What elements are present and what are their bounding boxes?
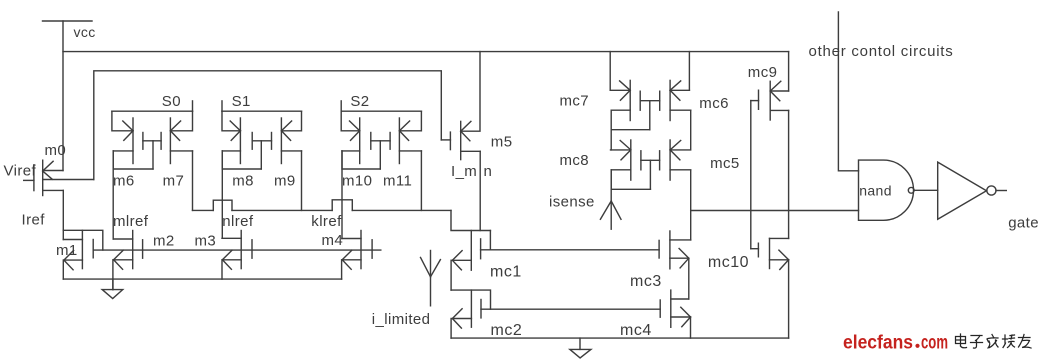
label isense xyxy=(549,193,595,210)
wire nand output xyxy=(914,189,938,191)
ground symbol left xyxy=(102,279,123,298)
svg-text:gate: gate xyxy=(1008,214,1039,231)
transistor m9 source lead xyxy=(281,150,301,152)
wire mc9 drain from rail xyxy=(788,52,790,91)
label klref xyxy=(311,213,342,230)
wire other control circuits xyxy=(838,12,858,171)
transistor m11 drain arrow xyxy=(399,121,409,140)
transistor mc3 source arrow xyxy=(679,249,689,268)
label mc4 xyxy=(620,322,652,339)
transistor mc9 drain arrow xyxy=(770,81,781,101)
transistor mc9 source lead xyxy=(770,109,788,111)
svg-text:m7: m7 xyxy=(163,173,185,190)
wire mc9 source down xyxy=(788,110,790,238)
wire mc7-mc6 gate link xyxy=(640,100,660,102)
transistor mc8 source lead xyxy=(611,169,631,171)
transistor mc3 gate plate xyxy=(658,240,660,258)
svg-text:m0: m0 xyxy=(45,142,67,159)
transistor mc2 source lead xyxy=(452,318,471,320)
transistor mc4 source arrow xyxy=(681,307,691,326)
gate U2 output bubble xyxy=(987,186,996,195)
wire S2 source tie xyxy=(342,151,380,169)
wire Iref node m0 to m1 xyxy=(62,190,64,239)
transistor mc1 source lead xyxy=(452,259,471,261)
logo elecfans.com xyxy=(843,333,948,354)
label other contol circuits xyxy=(809,43,954,60)
transistor mc4 channel xyxy=(670,290,672,327)
transistor m5 source lead xyxy=(461,150,481,152)
wire S0 right drain xyxy=(170,111,192,131)
wire mc9 gate vertical xyxy=(750,101,752,249)
transistor mc2 gate plate xyxy=(480,300,482,318)
transistor mc6 drain lead xyxy=(670,89,689,91)
label S0 xyxy=(162,93,181,110)
transistor mc6 channel xyxy=(669,80,671,120)
wire m3 source down xyxy=(221,260,223,279)
logo chinese char fa xyxy=(987,335,998,349)
svg-text:other contol circuits: other contol circuits xyxy=(809,43,954,60)
transistor m10 drain arrow xyxy=(350,121,360,140)
label mc5 xyxy=(710,155,740,172)
transistor mc8 drain lead xyxy=(611,149,631,151)
label I_min part1 xyxy=(451,163,477,180)
wire m9 source down xyxy=(301,151,303,211)
transistor mc10 drain lead xyxy=(770,237,789,239)
transistor m0 source lead xyxy=(43,189,64,191)
transistor m3 channel xyxy=(240,231,242,269)
transistor mc6 gate plate xyxy=(659,91,661,110)
label mc3 xyxy=(630,273,662,290)
transistor m9 drain arrow xyxy=(281,121,291,140)
svg-text:mc7: mc7 xyxy=(560,93,590,110)
svg-text:com: com xyxy=(921,333,948,354)
label Iref xyxy=(22,211,46,228)
svg-text:m8: m8 xyxy=(232,173,254,190)
svg-text:m1: m1 xyxy=(56,242,78,259)
label m10 xyxy=(342,173,372,190)
svg-text:mc1: mc1 xyxy=(490,264,522,281)
label m11 xyxy=(383,173,412,190)
label nand xyxy=(859,182,892,198)
transistor m4 source arrow xyxy=(342,250,352,269)
wire m1 source down xyxy=(62,260,64,279)
transistor mc10 gate plate xyxy=(757,243,759,257)
transistor m4 channel xyxy=(360,231,362,269)
transistor m4 gate plate xyxy=(371,240,373,258)
wire gate rail mc1-mc3 xyxy=(481,249,659,251)
transistor m7 channel xyxy=(169,118,171,164)
svg-text:m5: m5 xyxy=(491,134,513,151)
logo chinese char dian xyxy=(956,334,967,348)
transistor mc6 source lead xyxy=(670,109,691,111)
label Viref xyxy=(4,163,37,180)
wire sense node to nand xyxy=(691,210,859,212)
transistor mc8 gate plate xyxy=(640,151,642,170)
transistor m8 channel xyxy=(239,118,241,164)
wire mc8-mc5 source tie xyxy=(611,188,650,190)
transistor m0 channel xyxy=(42,160,44,195)
label mc1 xyxy=(490,264,522,281)
label S1 xyxy=(232,93,251,110)
transistor m2 source arrow xyxy=(114,250,124,269)
wire S2 gate link xyxy=(371,140,390,142)
transistor m6 channel xyxy=(132,118,134,164)
transistor mc2 channel xyxy=(470,290,472,327)
transistor m5 gate plate xyxy=(449,132,451,150)
transistor m6 drain arrow xyxy=(123,121,133,140)
transistor m0 gate lead xyxy=(24,179,34,181)
svg-text:mc2: mc2 xyxy=(491,322,523,339)
transistor m8 source lead xyxy=(222,150,240,152)
wire top rail VDD xyxy=(63,51,789,53)
current arrow i_limited xyxy=(421,251,441,306)
transistor m5 drain lead xyxy=(461,52,480,132)
wire mc4 source down xyxy=(690,317,692,338)
wire I_min rail segment 2 xyxy=(232,209,332,211)
wire S2 control stub xyxy=(340,101,342,111)
transistor mc9 gate plate xyxy=(758,90,760,109)
transistor mc7 gate plate xyxy=(639,91,641,110)
svg-text:n: n xyxy=(484,163,493,180)
wire I_min rail segment 1 xyxy=(193,209,214,211)
transistor m7 drain arrow xyxy=(170,121,180,140)
svg-text:nlref: nlref xyxy=(222,213,254,230)
wire mc8-mc5 gate link xyxy=(641,159,660,161)
svg-text:elecfans: elecfans xyxy=(843,333,913,354)
transistor m2 channel xyxy=(132,231,134,269)
transistor m0 gate plate xyxy=(33,165,35,191)
label m5 xyxy=(491,134,513,151)
svg-text:mlref: mlref xyxy=(113,213,149,230)
wire S0 gate drop xyxy=(152,141,154,169)
transistor mc5 channel xyxy=(669,140,671,180)
gate U1 output bubble xyxy=(908,187,914,193)
wire S2 top rail xyxy=(341,110,421,112)
transistor m3 source lead xyxy=(222,259,241,261)
wire vcc vertical to m0 drain xyxy=(62,21,64,171)
transistor m10 channel xyxy=(359,118,361,164)
transistor mc8 drain arrow xyxy=(620,141,631,160)
wire S1 right drain xyxy=(281,111,301,131)
wire mc7-mc6 source tie xyxy=(611,129,650,131)
label m8 xyxy=(232,173,254,190)
wire ground rail bottom xyxy=(451,337,788,339)
label vcc xyxy=(74,24,96,40)
wire S0 source tie xyxy=(113,151,153,169)
svg-text:Viref: Viref xyxy=(4,163,37,180)
svg-text:I_m: I_m xyxy=(451,163,477,180)
transistor mc5 drain lead xyxy=(670,149,689,151)
wire S0 top rail xyxy=(112,110,193,112)
wire hop over klref xyxy=(332,200,352,211)
svg-text:m2: m2 xyxy=(153,232,175,249)
transistor m10 source lead xyxy=(342,150,360,152)
transistor mc5 source lead xyxy=(670,169,691,171)
svg-text:S2: S2 xyxy=(350,93,369,110)
wire S2 gate drop xyxy=(379,141,381,169)
transistor m1 source lead xyxy=(64,259,83,261)
transistor m9 channel xyxy=(280,118,282,164)
transistor mc9 channel xyxy=(769,81,771,120)
transistor m6 gate plate xyxy=(142,133,144,150)
transistor mc4 gate plate xyxy=(659,300,661,317)
wire I_min rail segment 3 xyxy=(352,209,451,211)
wire m11 source down xyxy=(420,151,422,211)
label m1 xyxy=(56,242,78,259)
wire S0 left drain xyxy=(112,111,133,131)
transistor mc7 drain arrow xyxy=(620,81,631,100)
label i_limited xyxy=(372,311,431,328)
svg-text:mc3: mc3 xyxy=(630,273,662,290)
wire inverter output xyxy=(996,190,1006,192)
transistor mc10 source arrow xyxy=(779,250,789,269)
label m3 xyxy=(195,232,217,249)
label mc10 xyxy=(708,254,749,271)
transistor mc7 drain lead xyxy=(610,89,630,91)
wire mc7-mc6 gate drop xyxy=(649,101,651,130)
label m0 xyxy=(45,142,67,159)
svg-text:vcc: vcc xyxy=(74,24,96,40)
transistor m10 gate plate xyxy=(370,133,372,150)
transistor m6 source lead xyxy=(113,150,133,152)
svg-text:klref: klref xyxy=(311,213,342,230)
transistor mc7 channel xyxy=(629,80,631,120)
transistor mc7 source lead xyxy=(611,109,630,111)
gate U2 inverter triangle xyxy=(938,162,987,219)
wire mc5 source down to mc3 xyxy=(690,170,692,240)
transistor mc1 gate plate xyxy=(480,239,482,259)
label mc9 xyxy=(748,64,778,81)
label I_min part2 xyxy=(484,163,493,180)
transistor m0 drain lead to vcc xyxy=(43,170,63,172)
transistor mc2 drain lead xyxy=(451,290,490,309)
svg-text:nand: nand xyxy=(859,182,892,198)
transistor m8 drain arrow xyxy=(230,121,240,140)
transistor mc1 diode tie xyxy=(489,231,491,250)
svg-text:mc5: mc5 xyxy=(710,155,740,172)
transistor m11 channel xyxy=(398,118,400,164)
transistor m3 drain lead xyxy=(222,237,241,239)
wire S1 gate link xyxy=(252,140,271,142)
transistor m3 gate plate xyxy=(251,240,253,258)
transistor m9 gate plate xyxy=(271,133,273,150)
wire m7 source down xyxy=(192,151,194,211)
transistor m11 gate plate xyxy=(389,133,391,150)
transistor m7 source lead xyxy=(170,150,192,152)
label S2 xyxy=(350,93,369,110)
wire mlref vertical xyxy=(112,151,114,239)
label m9 xyxy=(274,173,296,190)
transistor m11 source lead xyxy=(399,150,421,152)
wire gate rail m1-m4 xyxy=(93,249,381,251)
transistor m4 source lead xyxy=(342,259,361,261)
transistor mc10 gate lead xyxy=(751,248,759,250)
wire klref vertical xyxy=(341,151,343,239)
wire mc3 source to mc4 drain xyxy=(688,258,690,299)
wire m4 source down xyxy=(341,260,343,279)
svg-text:mc10: mc10 xyxy=(708,254,749,271)
transistor m3 source arrow xyxy=(222,250,232,269)
svg-text:S0: S0 xyxy=(162,93,181,110)
transistor m2 gate plate xyxy=(142,240,144,258)
transistor m5 gate lead xyxy=(441,139,450,141)
logo chinese char shao xyxy=(1003,335,1015,348)
svg-text:mc4: mc4 xyxy=(620,322,652,339)
svg-text:mc9: mc9 xyxy=(748,64,778,81)
wire S1 control stub xyxy=(221,101,223,111)
transistor mc3 channel xyxy=(669,231,671,269)
transistor m1 source arrow xyxy=(64,250,74,269)
gate U1 nand body xyxy=(859,160,914,220)
wire S0 gate link xyxy=(143,140,161,142)
wire mc7 source down xyxy=(610,110,612,130)
wire second rail xyxy=(94,71,442,180)
wire mc2 source down xyxy=(450,319,452,339)
label m6 xyxy=(113,173,135,190)
wire S2 right drain xyxy=(399,111,421,131)
transistor mc6 drain arrow xyxy=(670,81,681,100)
transistor mc9 gate lead xyxy=(751,100,759,102)
svg-text:Iref: Iref xyxy=(22,211,46,228)
transistor m2 source lead xyxy=(114,259,133,261)
transistor mc1 source arrow xyxy=(452,251,462,270)
transistor mc3 source lead xyxy=(670,257,689,259)
wire mc7 drain from rail xyxy=(609,52,611,91)
transistor mc5 gate plate xyxy=(659,151,661,170)
transistor m1 drain lead xyxy=(63,239,82,241)
label gate xyxy=(1008,214,1039,231)
label mlref xyxy=(113,213,149,230)
label mc2 xyxy=(491,322,523,339)
transistor m1 gate plate xyxy=(92,240,94,258)
svg-text:mc6: mc6 xyxy=(699,95,729,112)
transistor mc1 channel xyxy=(470,231,472,271)
transistor m1 channel xyxy=(81,230,83,268)
wire S2 left drain xyxy=(341,111,360,131)
wire hop over nlref xyxy=(213,200,232,210)
wire m0 to second rail xyxy=(43,179,94,181)
label mc7 xyxy=(560,93,590,110)
svg-text:isense: isense xyxy=(549,193,595,210)
label m7 xyxy=(163,173,185,190)
transistor mc10 channel xyxy=(769,238,771,268)
transistor m4 drain lead xyxy=(342,238,361,240)
svg-text:m4: m4 xyxy=(322,232,344,249)
wire m5 source down xyxy=(479,151,481,230)
wire nlref vertical xyxy=(221,151,223,238)
transistor mc4 source lead xyxy=(671,316,691,318)
transistor m2 drain lead xyxy=(113,238,133,240)
wire mc6 source to mc5 drain xyxy=(690,110,692,150)
wire mc10 source down xyxy=(788,260,790,338)
wire ground rail left xyxy=(63,278,341,280)
ground symbol bottom xyxy=(570,338,591,358)
power symbol vcc bar xyxy=(43,20,93,22)
svg-text:m9: m9 xyxy=(274,173,296,190)
wire mc7 source to mc8 drain xyxy=(610,130,612,150)
wire mc1 source to mc2 drain xyxy=(450,260,452,290)
label nlref xyxy=(222,213,254,230)
transistor m7 gate plate xyxy=(160,133,162,150)
svg-text:m6: m6 xyxy=(113,173,135,190)
wire m2 source to ground xyxy=(112,260,114,290)
current arrow isense xyxy=(600,170,621,229)
transistor m5 channel xyxy=(460,121,462,159)
transistor mc4 drain lead xyxy=(671,298,689,300)
transistor mc10 source lead xyxy=(770,259,789,261)
svg-text:m3: m3 xyxy=(195,232,217,249)
wire S1 gate drop xyxy=(260,141,262,169)
wire S1 top rail xyxy=(222,110,302,112)
transistor m1 diode lead xyxy=(63,230,103,250)
wire mc8-mc5 gate drop xyxy=(649,160,651,189)
label m2 xyxy=(153,232,175,249)
label mc8 xyxy=(560,152,590,169)
wire S1 source tie xyxy=(222,151,261,169)
wire S0 control stub xyxy=(192,101,194,111)
wire gate rail mc2-mc4 xyxy=(481,308,660,310)
transistor m5 drain arrow xyxy=(461,121,471,140)
svg-text:mc8: mc8 xyxy=(560,152,590,169)
transistor mc2 source arrow xyxy=(452,309,462,328)
transistor mc3 drain lead xyxy=(670,239,691,241)
transistor mc5 drain arrow xyxy=(670,141,681,160)
transistor mc8 channel xyxy=(630,140,632,180)
svg-text:m11: m11 xyxy=(383,173,412,190)
label m4 xyxy=(322,232,344,249)
logo chinese char zi xyxy=(971,336,983,349)
svg-text:i_limited: i_limited xyxy=(372,311,431,328)
label mc6 xyxy=(699,95,729,112)
wire I_min down to mc1 xyxy=(451,210,490,230)
svg-text:m10: m10 xyxy=(342,173,372,190)
wire mc8 source down xyxy=(610,170,612,190)
transistor mc9 drain lead xyxy=(770,90,788,92)
logo chinese char you xyxy=(1019,335,1032,349)
wire mc6 drain to rail xyxy=(688,52,690,91)
transistor m0 source arrow xyxy=(43,161,53,179)
svg-text:S1: S1 xyxy=(232,93,251,110)
transistor m8 gate plate xyxy=(251,133,253,150)
wire S1 left drain xyxy=(222,111,240,131)
